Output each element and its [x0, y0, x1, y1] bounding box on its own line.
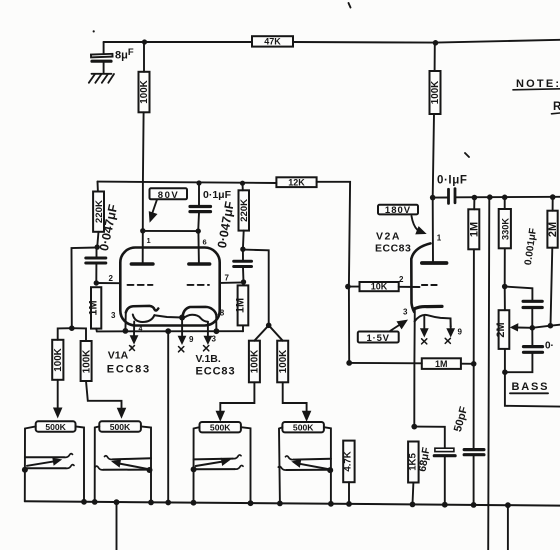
heater pin arrow 9 with x: [178, 318, 194, 352]
svg-text:ECC83: ECC83: [107, 364, 151, 376]
V1A cathode lead to pin 3: [124, 313, 126, 331]
svg-text:0·: 0·: [545, 341, 554, 352]
capacitor 0.001uF (upper): [523, 227, 542, 327]
label 180V with arrow: [378, 205, 426, 234]
resistor 1M #2 (grid leak): [235, 285, 249, 331]
node 10K tap: [345, 284, 351, 290]
tube V2A envelope arc: [411, 243, 430, 312]
resistor 100K (V2A HT): [430, 43, 441, 198]
svg-text:V.1B.: V.1B.: [196, 353, 221, 365]
node heater junction V1B: [179, 315, 185, 321]
V2A cathode lead: [413, 309, 416, 427]
svg-text:80V: 80V: [158, 190, 179, 201]
node rail/220K#2: [240, 181, 245, 186]
wire center drop to bus: [167, 331, 169, 502]
wire bus drop to bottom left: [116, 502, 118, 550]
svg-text:12K: 12K: [288, 177, 305, 187]
svg-text:8: 8: [220, 309, 225, 318]
svg-text:100K: 100K: [81, 350, 92, 373]
note text: [513, 78, 560, 114]
resistor 100K #5 (pot3 feed): [216, 325, 268, 420]
capacitor 0.1uF (V1 plate): [190, 183, 232, 231]
svg-text:1: 1: [147, 236, 151, 245]
resistor 47K: [252, 36, 293, 46]
node 220K2/cap junction: [240, 247, 245, 252]
svg-text:3: 3: [403, 308, 408, 317]
node pot feed right: [266, 323, 272, 329]
svg-text:V2A: V2A: [376, 231, 401, 243]
svg-text:3: 3: [111, 311, 116, 320]
node 330K bottom: [502, 284, 508, 290]
svg-text:1M: 1M: [469, 222, 481, 237]
svg-text:2M: 2M: [547, 222, 559, 237]
resistor 2M #2 (bass pot): [495, 287, 509, 373]
svg-text:1: 1: [437, 234, 442, 243]
capacitor 0.01uF (lower): [505, 328, 554, 372]
pin 7 lead: [221, 281, 244, 284]
V2A grid (dashed): [422, 284, 440, 286]
svg-text:100K: 100K: [278, 350, 289, 373]
node bass bottom: [502, 369, 508, 375]
heater pin arrow 4 with x: [130, 322, 143, 351]
svg-text:1·5V: 1·5V: [367, 333, 390, 344]
wire bass frame: [505, 372, 560, 406]
node V2A plate: [430, 195, 436, 201]
label V1A ECC83: [107, 343, 151, 376]
resistor 1M #4 (horizontal): [349, 358, 474, 369]
V1A cathode: [126, 306, 159, 313]
wire to 0.001uF cap1: [505, 287, 533, 300]
ink speck near 0.1uF: [465, 153, 469, 157]
V1B cathode: [183, 307, 217, 316]
svg-text:220K: 220K: [239, 199, 250, 222]
pin labels V2A: [399, 234, 463, 337]
svg-text:1M: 1M: [88, 300, 100, 315]
node pin8: [214, 328, 220, 334]
node bus junctions: [81, 499, 511, 508]
svg-text:500K: 500K: [293, 423, 314, 433]
label BASS: [512, 381, 550, 393]
potentiometer 500K #1: [22, 421, 84, 501]
svg-text:500K: 500K: [210, 423, 231, 433]
svg-text:500K: 500K: [45, 422, 66, 432]
potentiometer 500K #4: [278, 422, 333, 502]
label V2A ECC83: [375, 231, 411, 255]
svg-text:100K: 100K: [139, 80, 150, 103]
svg-text:180V: 180V: [385, 205, 411, 216]
wire branch plate1 to pots: [72, 248, 98, 329]
node 2M tap: [550, 194, 556, 200]
capacitor 0.047uF #2: [215, 200, 252, 282]
label 80V with arrow: [149, 188, 187, 221]
V1B heater arc: [183, 315, 208, 322]
resistor 100K #6 (pot4 feed): [269, 325, 311, 420]
svg-text:500K: 500K: [110, 422, 131, 432]
resistor 1M #1 (grid leak): [88, 287, 102, 331]
resistor 1M #3: [468, 198, 480, 449]
wire ground bus: [25, 501, 560, 505]
potentiometer 500K #3: [191, 422, 251, 502]
potentiometer 500K #2: [95, 421, 153, 501]
node long vertical tap: [487, 194, 493, 200]
wire V1A anode lead: [142, 231, 144, 263]
capacitor 0.1uF (V2A coupling): [433, 175, 560, 204]
resistor 1K5 (cathode): [408, 442, 419, 505]
heater pin arrows V2A with x: [421, 317, 455, 344]
wire long vertical: [488, 197, 489, 550]
node grid1 junction: [94, 280, 99, 285]
V2A cathode: [415, 306, 442, 308]
heater link wire: [154, 315, 182, 317]
resistor 2M #1: [547, 197, 559, 326]
svg-text:V1A: V1A: [108, 350, 129, 362]
label V1B ECC83: [196, 353, 236, 378]
svg-text:10K: 10K: [371, 282, 388, 292]
node rail/0.1uF: [196, 180, 201, 185]
svg-text:6: 6: [203, 238, 207, 247]
wire V1B anode lead: [197, 231, 200, 262]
wiper arrow bass pot: [511, 324, 560, 331]
label 1.5V with arrow: [358, 320, 407, 344]
resistor 100K R1: [139, 42, 150, 231]
capacitor 0.047uF #1: [86, 203, 121, 283]
node center drop: [165, 328, 171, 334]
wire V1 plate node: [143, 230, 198, 232]
V2A anode plate bar: [422, 261, 447, 265]
capacitor 50pF: [452, 405, 484, 505]
resistor 12K: [276, 177, 350, 363]
V1A grid (dashed): [128, 284, 153, 286]
svg-text:R: R: [553, 101, 560, 113]
V1A anode plate bar: [131, 262, 153, 266]
wire screen rail y182: [98, 182, 277, 183]
svg-text:2: 2: [399, 275, 404, 284]
node coupling out / 1M: [472, 195, 478, 201]
svg-text:100K: 100K: [53, 348, 64, 371]
node HT junction at 100K (V2A feed): [433, 40, 439, 46]
svg-text:330K: 330K: [501, 218, 511, 240]
svg-text:9: 9: [189, 335, 194, 344]
node 220K1/cap junction: [95, 244, 100, 249]
resistor 10K: [348, 282, 420, 292]
node 330K tap: [502, 195, 508, 201]
pin 2 lead: [96, 282, 119, 284]
ground (chassis): [89, 74, 114, 83]
ink speck top center: [349, 3, 351, 8]
svg-text:2M: 2M: [495, 322, 507, 337]
svg-text:100K: 100K: [430, 81, 441, 104]
node grid2 junction: [241, 279, 246, 284]
wire bus drop right: [507, 505, 509, 550]
V1B cathode lead to pin 8: [215, 315, 217, 332]
V1B anode plate bar: [189, 262, 210, 266]
svg-text:0·IμF: 0·IμF: [437, 175, 467, 187]
node HT junction at 100K R1: [142, 39, 147, 44]
wire branch plate2 to pots: [243, 250, 269, 326]
V1A heater arc: [133, 315, 155, 323]
resistor 4.7K: [343, 441, 355, 503]
svg-text:9: 9: [458, 328, 463, 337]
pin labels 2 3 7 8: [109, 274, 230, 321]
svg-text:x: x: [130, 343, 135, 352]
node pin3: [123, 328, 129, 334]
resistor 330K: [499, 197, 511, 286]
svg-text:1M: 1M: [235, 298, 247, 313]
ink speck top left: [93, 30, 95, 32]
capacitor 68uF: [414, 427, 455, 505]
resistor 220K #2: [239, 183, 251, 249]
svg-text:2: 2: [109, 274, 114, 283]
svg-text:0·1μF: 0·1μF: [203, 189, 232, 201]
svg-text:7: 7: [225, 274, 230, 283]
svg-text:100K: 100K: [250, 350, 261, 373]
resistor 100K #4 (pot2 feed): [72, 328, 126, 417]
node mixer: [346, 360, 352, 366]
resistor 100K #3 (pot1 feed): [52, 328, 72, 417]
svg-text:BASS: BASS: [512, 381, 550, 393]
svg-text:4.7K: 4.7K: [343, 451, 354, 471]
wire cathode/ground return under V1: [97, 330, 243, 332]
tube V1 envelope: [120, 248, 219, 326]
capacitor 8uF: [91, 54, 113, 73]
svg-text:ECC83: ECC83: [375, 243, 411, 255]
svg-text:ECC83: ECC83: [196, 366, 236, 378]
heater pin arrow 5 with x: [204, 322, 217, 351]
svg-text:47K: 47K: [264, 37, 281, 47]
resistor 220K #1: [93, 182, 105, 248]
V2A anode lead: [432, 198, 434, 263]
V2A heater loop: [415, 315, 451, 327]
node pot feed left: [69, 325, 75, 331]
svg-text:1M: 1M: [435, 359, 448, 369]
V1B grid (dashed): [188, 284, 210, 286]
node cathode junction: [411, 424, 417, 430]
svg-text:3: 3: [212, 335, 217, 344]
wire HT top rail: [104, 40, 560, 54]
